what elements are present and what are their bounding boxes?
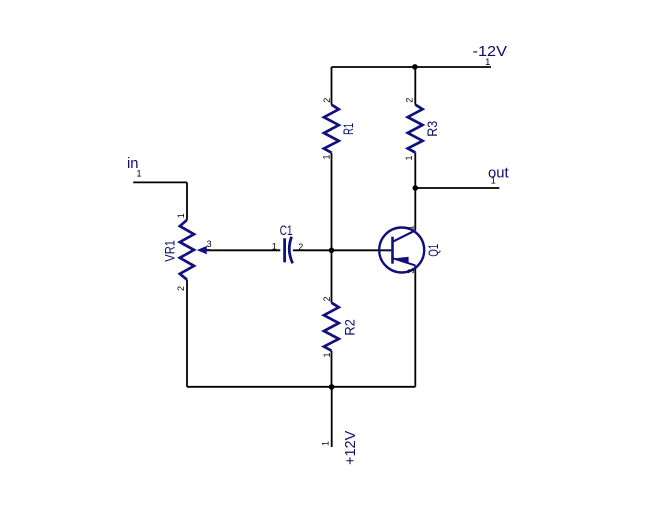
svg-text:1: 1 — [137, 169, 142, 179]
svg-text:C1: C1 — [280, 222, 293, 238]
svg-text:2: 2 — [322, 98, 332, 103]
svg-text:1: 1 — [322, 154, 332, 159]
svg-text:Q1: Q1 — [425, 244, 441, 257]
svg-text:2: 2 — [405, 98, 415, 103]
svg-text:R2: R2 — [342, 319, 358, 336]
svg-text:R3: R3 — [424, 121, 440, 137]
svg-text:3: 3 — [406, 269, 416, 274]
svg-text:3: 3 — [207, 239, 212, 249]
svg-text:1: 1 — [404, 155, 414, 160]
svg-text:R1: R1 — [340, 123, 356, 135]
svg-text:2: 2 — [176, 286, 186, 291]
svg-text:1: 1 — [272, 242, 277, 252]
svg-text:1: 1 — [176, 213, 186, 218]
svg-text:1: 1 — [321, 441, 331, 446]
svg-text:1: 1 — [406, 225, 416, 230]
svg-text:2: 2 — [298, 242, 303, 252]
svg-text:VR1: VR1 — [162, 240, 178, 262]
svg-text:+12V: +12V — [342, 431, 359, 465]
svg-text:1: 1 — [322, 352, 332, 357]
svg-text:1: 1 — [485, 57, 490, 67]
svg-text:1: 1 — [491, 176, 496, 186]
svg-text:2: 2 — [322, 296, 332, 301]
